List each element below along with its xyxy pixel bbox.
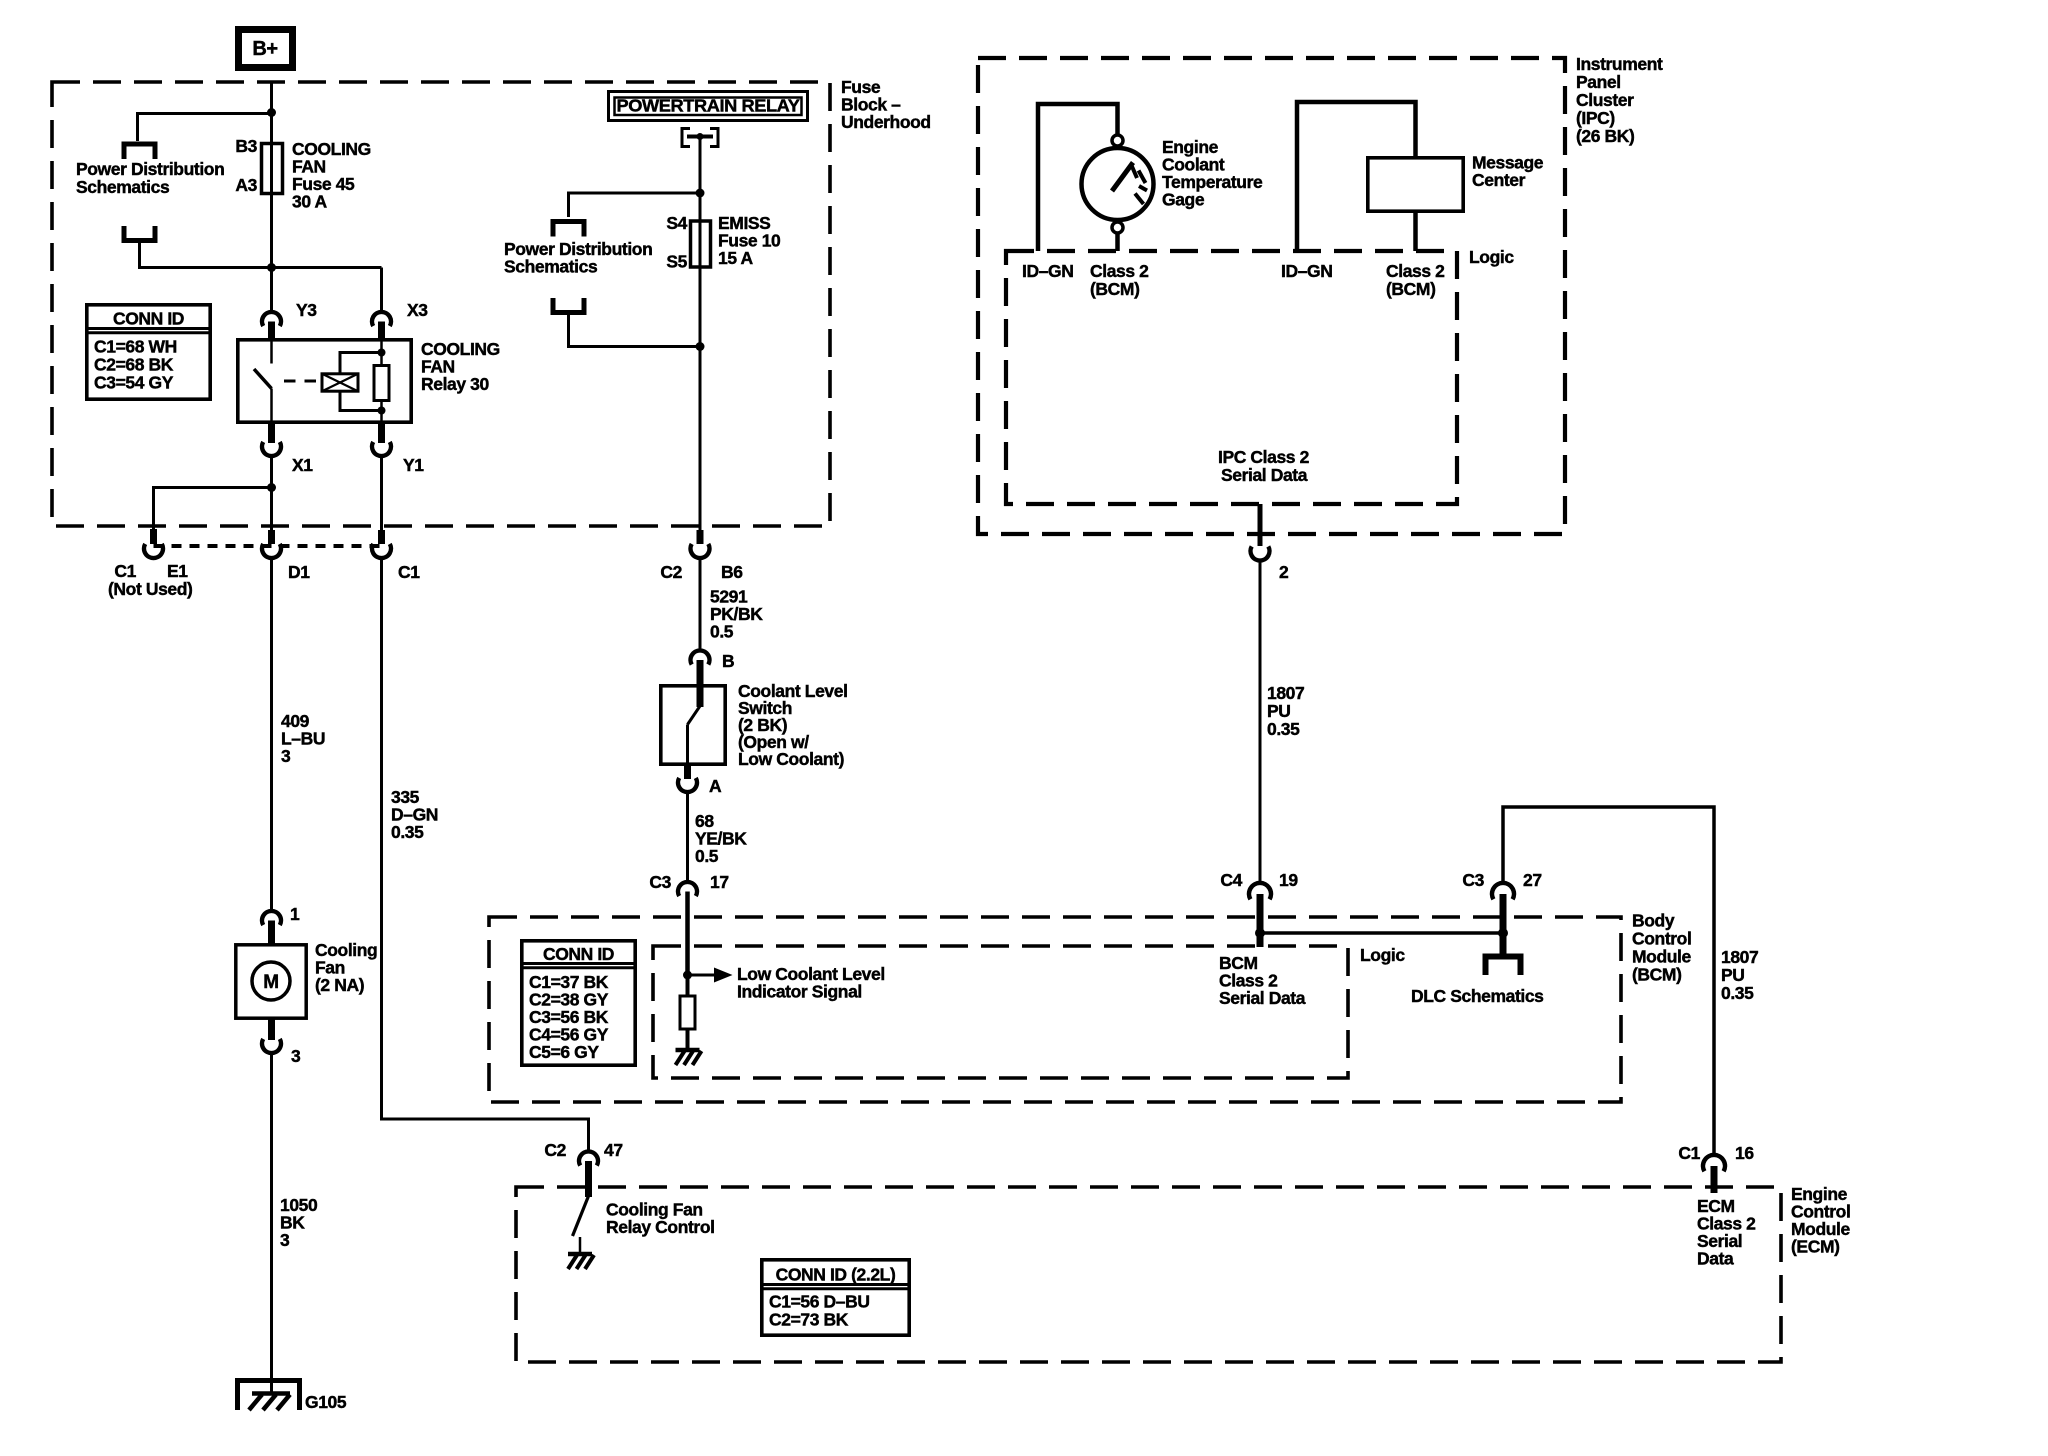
connector X1 xyxy=(268,424,275,443)
svg-text:Control: Control xyxy=(1632,929,1691,949)
svg-text:B+: B+ xyxy=(252,38,277,60)
relay internal resistor xyxy=(380,340,383,424)
svg-text:C5=6 GY: C5=6 GY xyxy=(529,1042,599,1062)
wire message center to logic xyxy=(1413,211,1418,251)
connector 3 xyxy=(268,1018,275,1040)
connector X3 xyxy=(380,268,383,313)
svg-text:47: 47 xyxy=(604,1140,623,1160)
off-page reference from Power Distribution Schematics (fuse block bottom) xyxy=(553,298,584,313)
svg-text:B: B xyxy=(722,651,734,671)
connector C2 / B6 xyxy=(697,530,704,544)
svg-text:CONN ID: CONN ID xyxy=(543,944,614,964)
off-page reference from Power Distribution Schematics (bottom) xyxy=(124,226,155,241)
svg-text:(Not Used): (Not Used) xyxy=(108,579,192,599)
connector Y3 xyxy=(270,268,273,313)
wire Y1 to C1 xyxy=(380,456,383,531)
gauge Engine Coolant Temperature Gage xyxy=(1082,148,1154,220)
wire branch to Power Distribution reference xyxy=(138,114,272,142)
svg-text:Relay Control: Relay Control xyxy=(606,1217,715,1237)
svg-text:19: 19 xyxy=(1279,870,1298,890)
svg-text:1807: 1807 xyxy=(1721,947,1758,967)
svg-text:S4: S4 xyxy=(666,213,687,233)
svg-text:DLC Schematics: DLC Schematics xyxy=(1411,986,1544,1006)
svg-text:Module: Module xyxy=(1632,947,1692,967)
wire 409 L-BU 3 xyxy=(270,558,273,913)
svg-text:E1: E1 xyxy=(167,561,188,581)
switch cooling fan relay control driver (ECM) xyxy=(573,1196,589,1236)
connector 2 (IPC serial data out) xyxy=(1258,504,1263,546)
CONN ID table (cooling fan relay connectors) xyxy=(87,305,210,399)
fuse EMISS Fuse 10 15 A xyxy=(699,193,702,347)
svg-text:1: 1 xyxy=(290,904,300,924)
relay COOLING FAN Relay 30 box xyxy=(238,340,411,422)
node coil bottom xyxy=(378,407,386,415)
BCM internal logic dashed box xyxy=(653,946,1348,1078)
svg-text:Center: Center xyxy=(1472,170,1526,190)
wire Power Distribution return to relay feed node xyxy=(140,243,382,268)
coolant level switch box xyxy=(661,686,725,764)
svg-text:Power Distribution: Power Distribution xyxy=(76,159,224,179)
wire X1 to D1 xyxy=(270,456,273,531)
node coil top xyxy=(378,349,386,357)
svg-text:3: 3 xyxy=(281,746,291,766)
svg-text:C4: C4 xyxy=(1220,870,1242,890)
svg-text:A: A xyxy=(709,776,722,796)
CONN ID (2.2L) table (ECM connectors) xyxy=(762,1260,909,1335)
node logic / C4 xyxy=(1255,928,1265,938)
svg-text:C2=73 BK: C2=73 BK xyxy=(769,1310,849,1330)
svg-text:Underhood: Underhood xyxy=(841,112,931,132)
svg-text:1807: 1807 xyxy=(1267,683,1304,703)
svg-text:Schematics: Schematics xyxy=(504,257,598,277)
connector B (coolant level switch) xyxy=(691,650,710,664)
svg-text:Gage: Gage xyxy=(1162,190,1205,210)
svg-text:B3: B3 xyxy=(235,136,257,156)
svg-text:0.5: 0.5 xyxy=(710,622,734,642)
svg-text:S5: S5 xyxy=(666,252,687,272)
svg-text:C3=54 GY: C3=54 GY xyxy=(94,373,174,393)
svg-text:C2: C2 xyxy=(544,1140,566,1160)
wire 68 YE/BK 0.5 xyxy=(686,792,689,884)
node junction fuse output xyxy=(267,263,276,272)
connector E1 (C1 not used) xyxy=(150,529,157,544)
svg-text:(26 BK): (26 BK) xyxy=(1576,126,1634,146)
relay actuation dashed link xyxy=(284,380,321,383)
motor M cooling fan xyxy=(236,945,306,1018)
svg-text:C1=56 D–BU: C1=56 D–BU xyxy=(769,1292,870,1312)
svg-text:CONN ID: CONN ID xyxy=(113,309,184,329)
module box Engine Control Module (ECM) xyxy=(516,1187,1781,1362)
svg-text:(ECM): (ECM) xyxy=(1791,1237,1840,1257)
wire B+ to fuse F45 xyxy=(270,82,273,143)
svg-text:Instrument: Instrument xyxy=(1576,54,1663,74)
svg-text:C1: C1 xyxy=(398,562,420,582)
wire C3-17 into BCM xyxy=(685,892,690,976)
svg-text:X1: X1 xyxy=(292,455,313,475)
svg-text:Schematics: Schematics xyxy=(76,177,170,197)
powertrain relay contact symbol xyxy=(682,129,690,147)
CONN ID table (BCM connectors) xyxy=(522,941,635,1065)
svg-text:G105: G105 xyxy=(305,1392,347,1412)
module box Body Control Module (BCM) xyxy=(489,917,1621,1102)
svg-text:C1=68 WH: C1=68 WH xyxy=(94,337,177,357)
svg-text:ID–GN: ID–GN xyxy=(1281,261,1332,281)
svg-text:30 A: 30 A xyxy=(292,192,327,212)
svg-text:ID–GN: ID–GN xyxy=(1022,261,1073,281)
wire gauge to logic xyxy=(1115,233,1120,251)
svg-text:(BCM): (BCM) xyxy=(1090,279,1140,299)
fuse block underhood dashed box xyxy=(52,82,830,526)
wire branch to connector E1 xyxy=(154,488,272,530)
svg-text:0.35: 0.35 xyxy=(1721,983,1754,1003)
resistor BCM internal pull xyxy=(686,975,690,1050)
relay coil (solenoid box with X) xyxy=(322,374,358,391)
terminal gauge bottom xyxy=(1112,222,1123,233)
svg-text:A3: A3 xyxy=(235,175,257,195)
svg-text:D1: D1 xyxy=(288,562,310,582)
wire logic bus (BCM) xyxy=(1260,931,1503,935)
wire EMISS fuse to connector C2/B6 xyxy=(699,347,702,531)
svg-text:0.35: 0.35 xyxy=(1267,719,1300,739)
svg-text:0.5: 0.5 xyxy=(695,846,719,866)
svg-text:17: 17 xyxy=(710,872,729,892)
connector Y1 xyxy=(378,424,385,443)
off-page reference DLC Schematics xyxy=(1486,957,1521,976)
fuse F45 COOLING FAN 30 A xyxy=(270,143,273,268)
svg-text:POWERTRAIN RELAY: POWERTRAIN RELAY xyxy=(617,96,801,116)
node junction B+ / Power Distribution branch xyxy=(267,108,276,117)
svg-text:Data: Data xyxy=(1697,1249,1734,1269)
node junction powertrain / PD branch xyxy=(696,189,705,198)
svg-text:C1: C1 xyxy=(114,561,136,581)
power symbol B+ xyxy=(239,30,293,68)
svg-text:(IPC): (IPC) xyxy=(1576,108,1615,128)
IPC logic dashed box xyxy=(1006,251,1457,504)
wire 1050 BK 3 xyxy=(270,1053,273,1394)
wire 1807 PU 0.35 (BCM C3-27 to ECM C1-16) xyxy=(1503,807,1714,1153)
node logic / C3 xyxy=(1498,928,1508,938)
svg-text:X3: X3 xyxy=(407,300,428,320)
svg-text:CONN ID (2.2L): CONN ID (2.2L) xyxy=(776,1265,896,1285)
svg-text:Logic: Logic xyxy=(1360,945,1405,965)
ground BCM internal xyxy=(676,1048,700,1053)
svg-text:B6: B6 xyxy=(721,562,743,582)
wire 1807 PU 0.35 (IPC to BCM C4-19) xyxy=(1259,560,1262,882)
svg-text:0.35: 0.35 xyxy=(391,822,424,842)
svg-text:Logic: Logic xyxy=(1469,247,1514,267)
wire powertrain relay to EMISS fuse xyxy=(699,138,702,193)
svg-text:(BCM): (BCM) xyxy=(1632,965,1682,985)
connector D1 xyxy=(268,530,275,544)
svg-text:IPC Class 2: IPC Class 2 xyxy=(1218,447,1310,467)
node junction EMISS fuse output xyxy=(696,342,705,351)
svg-text:Panel: Panel xyxy=(1576,72,1621,92)
box Message Center xyxy=(1368,158,1463,211)
dotted connector row link E1-D1-C1 xyxy=(154,544,382,548)
svg-text:(2 NA): (2 NA) xyxy=(315,975,364,995)
svg-text:Class 2: Class 2 xyxy=(1386,261,1445,281)
svg-text:C3: C3 xyxy=(649,872,671,892)
svg-text:C3: C3 xyxy=(1462,870,1484,890)
svg-text:Y1: Y1 xyxy=(403,455,424,475)
svg-text:Class 2: Class 2 xyxy=(1090,261,1149,281)
svg-text:2: 2 xyxy=(1279,562,1289,582)
wire 5291 PK/BK 0.5 xyxy=(699,558,702,652)
svg-text:PU: PU xyxy=(1267,701,1291,721)
module box Instrument Panel Cluster (IPC) xyxy=(978,58,1565,534)
svg-text:C2=68 BK: C2=68 BK xyxy=(94,355,174,375)
svg-text:C1: C1 xyxy=(1678,1143,1700,1163)
wire 335 D-GN 0.35 (Y1/C1 to ECM C2-47) xyxy=(382,558,589,1152)
svg-text:C2: C2 xyxy=(660,562,682,582)
relay switch contact xyxy=(270,340,273,364)
svg-text:Low Coolant): Low Coolant) xyxy=(738,749,844,769)
connector C1 xyxy=(378,530,385,544)
ground G105 xyxy=(238,1381,300,1411)
off-page reference to Power Distribution Schematics (fuse block top) xyxy=(553,222,584,237)
svg-text:Cluster: Cluster xyxy=(1576,90,1634,110)
wire IPC message center feed loop xyxy=(1297,102,1416,251)
connector A xyxy=(684,764,691,779)
svg-text:3: 3 xyxy=(280,1230,290,1250)
svg-text:16: 16 xyxy=(1735,1143,1754,1163)
wire IPC gauge feed loop xyxy=(1038,104,1118,251)
svg-text:Y3: Y3 xyxy=(296,300,317,320)
off-page reference to Power Distribution Schematics (top) xyxy=(124,144,155,159)
coolant level switch contact xyxy=(688,706,701,725)
arrow low coolant level indicator signal xyxy=(688,974,715,977)
wire Power Distribution return to fuse bottom node xyxy=(569,315,701,347)
ground ECM internal xyxy=(568,1252,592,1257)
terminal gauge top xyxy=(1112,135,1123,146)
powertrain relay title box xyxy=(609,92,808,121)
connector 1 (cooling fan) xyxy=(262,911,281,925)
svg-text:27: 27 xyxy=(1523,870,1542,890)
wire branch to Power Distribution reference xyxy=(569,193,701,217)
svg-text:PU: PU xyxy=(1721,965,1745,985)
svg-text:15 A: 15 A xyxy=(718,248,753,268)
svg-text:Indicator Signal: Indicator Signal xyxy=(737,982,862,1002)
svg-text:(BCM): (BCM) xyxy=(1386,279,1436,299)
svg-text:Serial Data: Serial Data xyxy=(1221,465,1308,485)
node low coolant signal junction xyxy=(683,971,692,980)
svg-text:3: 3 xyxy=(291,1046,301,1066)
svg-text:Serial Data: Serial Data xyxy=(1219,988,1306,1008)
svg-text:Relay 30: Relay 30 xyxy=(421,374,489,394)
node branch to E1 xyxy=(267,483,276,492)
svg-text:Body: Body xyxy=(1632,911,1675,931)
svg-text:M: M xyxy=(263,972,278,993)
